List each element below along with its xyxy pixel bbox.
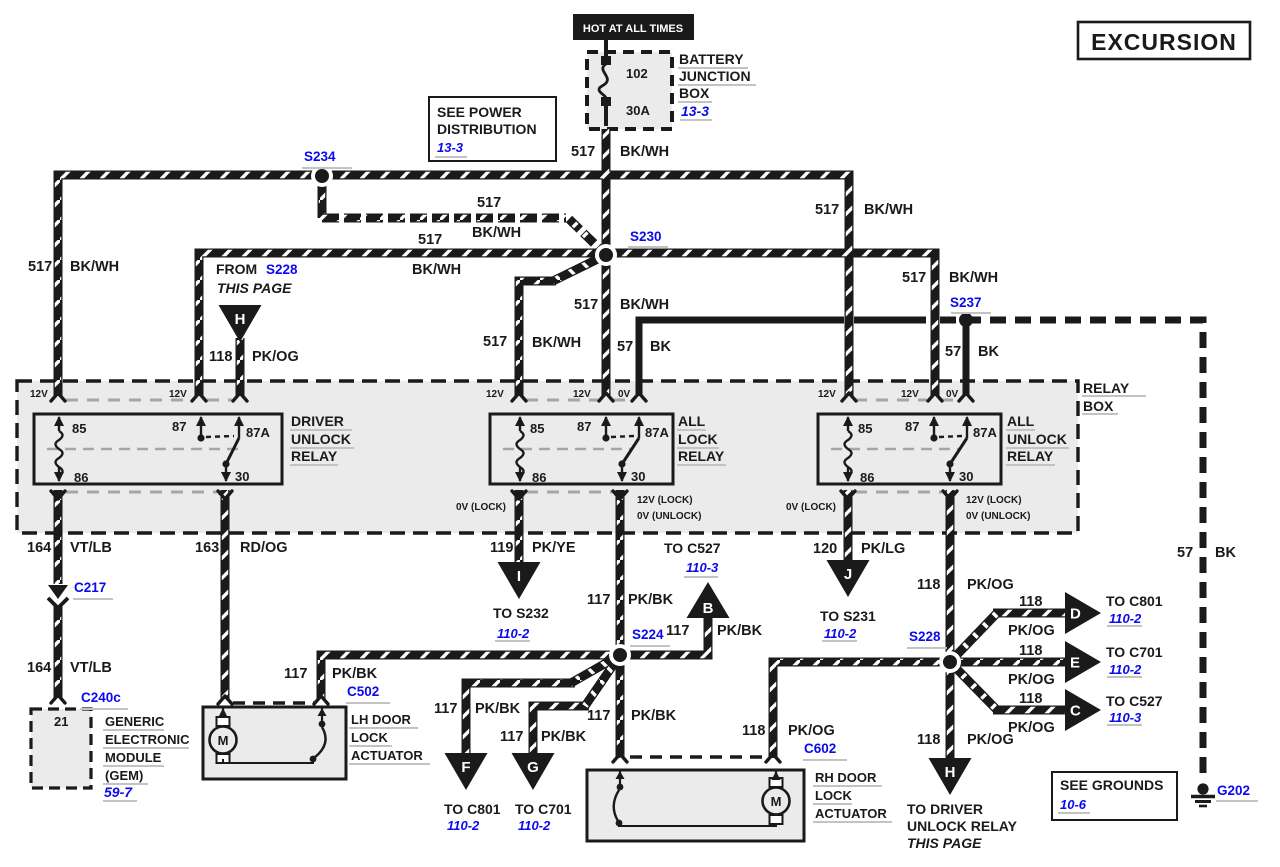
diagonal wire bundle (white slashes) xyxy=(553,255,997,706)
svg-text:I: I xyxy=(517,568,521,585)
svg-text:BOX: BOX xyxy=(1083,398,1114,414)
svg-text:117: 117 xyxy=(666,623,689,639)
svg-text:BK/WH: BK/WH xyxy=(532,335,581,351)
svg-text:S224: S224 xyxy=(632,627,664,642)
svg-text:PK/OG: PK/OG xyxy=(967,732,1014,748)
svg-text:BK/WH: BK/WH xyxy=(949,270,998,286)
svg-text:110-2: 110-2 xyxy=(824,626,857,641)
svg-text:86: 86 xyxy=(74,470,88,485)
LH actuator motor M xyxy=(217,717,230,726)
splice S230 xyxy=(595,244,617,266)
arrow C to C527 xyxy=(1065,689,1101,731)
splice S224 xyxy=(609,644,631,666)
relay U1 DRIVER UNLOCK RELAY xyxy=(34,414,282,484)
svg-text:PK/OG: PK/OG xyxy=(967,577,1014,593)
relay pin connector line xyxy=(526,399,598,402)
svg-text:S228: S228 xyxy=(909,629,941,644)
svg-text:TO C801: TO C801 xyxy=(1106,593,1163,609)
svg-text:118: 118 xyxy=(209,349,232,365)
svg-text:TO DRIVER: TO DRIVER xyxy=(907,801,983,817)
svg-text:0V (UNLOCK): 0V (UNLOCK) xyxy=(966,511,1030,522)
svg-text:0V (LOCK): 0V (LOCK) xyxy=(456,502,506,513)
svg-text:85: 85 xyxy=(858,421,872,436)
svg-text:TO C527: TO C527 xyxy=(1106,693,1163,709)
svg-text:MODULE: MODULE xyxy=(105,750,162,765)
svg-text:TO C701: TO C701 xyxy=(515,801,572,817)
svg-text:110-3: 110-3 xyxy=(1109,710,1142,725)
svg-text:VT/LB: VT/LB xyxy=(70,540,112,556)
svg-text:110-3: 110-3 xyxy=(686,560,719,575)
ground G202 xyxy=(1197,783,1208,794)
diagonal wire bundle (black base) xyxy=(553,255,997,706)
svg-text:H: H xyxy=(945,764,956,781)
relay U3 ALL UNLOCK RELAY xyxy=(818,414,1001,484)
svg-text:118: 118 xyxy=(1019,691,1042,707)
svg-text:J: J xyxy=(844,566,852,583)
svg-text:GENERIC: GENERIC xyxy=(105,714,165,729)
connector C602 dashed line xyxy=(630,755,766,758)
svg-text:G202: G202 xyxy=(1217,783,1250,798)
arrow H to driver unlock relay xyxy=(929,758,972,795)
svg-text:TO S232: TO S232 xyxy=(493,605,549,621)
LH actuator switch xyxy=(321,708,323,722)
arrow B to C527 xyxy=(687,582,730,618)
svg-text:517: 517 xyxy=(902,270,926,286)
svg-text:87A: 87A xyxy=(246,425,270,440)
svg-text:0V (LOCK): 0V (LOCK) xyxy=(786,502,836,513)
svg-text:SEE GROUNDS: SEE GROUNDS xyxy=(1060,777,1163,793)
svg-text:UNLOCK: UNLOCK xyxy=(1007,431,1067,447)
diagonal wire bundle 2 (white slashes) xyxy=(950,662,997,710)
actuator connector wire ends xyxy=(218,696,232,704)
svg-text:BK: BK xyxy=(978,344,999,360)
svg-text:110-2: 110-2 xyxy=(447,818,480,833)
RH door lock actuator box xyxy=(587,770,804,841)
arrow F to C801 xyxy=(445,753,488,790)
svg-text:117: 117 xyxy=(587,708,610,724)
svg-text:S228: S228 xyxy=(266,262,298,277)
svg-text:LOCK: LOCK xyxy=(678,431,718,447)
svg-text:BK: BK xyxy=(1215,545,1236,561)
relay bottom wire starts xyxy=(51,491,65,499)
svg-text:0V: 0V xyxy=(618,389,631,400)
svg-text:B: B xyxy=(703,600,714,617)
arrow I to S232 xyxy=(498,562,541,599)
RH actuator switch xyxy=(619,771,621,785)
svg-text:(GEM): (GEM) xyxy=(105,768,143,783)
svg-text:BK/WH: BK/WH xyxy=(620,297,669,313)
svg-text:C502: C502 xyxy=(347,684,379,699)
svg-text:30: 30 xyxy=(959,469,973,484)
svg-text:164: 164 xyxy=(27,540,51,556)
svg-text:59-7: 59-7 xyxy=(104,784,133,800)
relay pin connector line xyxy=(613,399,631,402)
fuse 102 30A xyxy=(604,40,608,56)
svg-text:87A: 87A xyxy=(645,425,669,440)
svg-text:118: 118 xyxy=(917,732,940,748)
svg-text:PK/OG: PK/OG xyxy=(1008,672,1055,688)
svg-text:117: 117 xyxy=(500,729,523,745)
svg-text:S230: S230 xyxy=(630,229,662,244)
svg-text:M: M xyxy=(218,733,229,748)
svg-text:THIS PAGE: THIS PAGE xyxy=(217,280,292,296)
LH door lock actuator box xyxy=(203,707,346,779)
svg-text:87: 87 xyxy=(905,419,919,434)
hatched wire bundle (black base) xyxy=(58,129,1065,759)
svg-text:13-3: 13-3 xyxy=(681,103,709,119)
svg-text:PK/BK: PK/BK xyxy=(631,708,677,724)
svg-text:RELAY: RELAY xyxy=(1007,448,1054,464)
svg-text:117: 117 xyxy=(587,592,610,608)
svg-text:BATTERY: BATTERY xyxy=(679,51,744,67)
svg-text:57: 57 xyxy=(617,339,633,355)
svg-text:PK/OG: PK/OG xyxy=(1008,623,1055,639)
svg-text:21: 21 xyxy=(54,714,68,729)
svg-text:110-2: 110-2 xyxy=(518,818,551,833)
RH actuator motor M xyxy=(770,778,783,787)
GEM module box xyxy=(31,709,91,788)
svg-text:517: 517 xyxy=(483,334,507,350)
svg-text:BK: BK xyxy=(650,339,671,355)
svg-text:12V: 12V xyxy=(169,389,187,400)
svg-text:10-6: 10-6 xyxy=(1060,797,1087,812)
svg-text:102: 102 xyxy=(626,66,648,81)
C240c wire end xyxy=(51,695,65,703)
svg-text:PK/OG: PK/OG xyxy=(252,349,299,365)
svg-text:164: 164 xyxy=(27,660,51,676)
svg-text:110-2: 110-2 xyxy=(1109,662,1142,677)
svg-text:PK/LG: PK/LG xyxy=(861,541,905,557)
svg-text:C602: C602 xyxy=(804,741,836,756)
svg-text:86: 86 xyxy=(860,470,874,485)
svg-text:RELAY: RELAY xyxy=(1083,380,1130,396)
svg-text:57: 57 xyxy=(945,344,961,360)
svg-text:85: 85 xyxy=(530,421,544,436)
svg-text:LOCK: LOCK xyxy=(351,730,388,745)
svg-text:BK/WH: BK/WH xyxy=(620,144,669,160)
svg-text:12V: 12V xyxy=(818,389,836,400)
svg-text:118: 118 xyxy=(917,577,940,593)
svg-text:DRIVER: DRIVER xyxy=(291,413,344,429)
label underlines xyxy=(302,167,352,169)
svg-text:BK/WH: BK/WH xyxy=(472,225,521,241)
svg-text:ALL: ALL xyxy=(1007,413,1035,429)
svg-text:517: 517 xyxy=(477,195,501,211)
arrow H from S228 xyxy=(219,305,262,342)
EXCURSION title box xyxy=(1078,22,1250,59)
svg-text:85: 85 xyxy=(72,421,86,436)
svg-text:119: 119 xyxy=(490,540,513,556)
svg-text:87: 87 xyxy=(577,419,591,434)
svg-text:118: 118 xyxy=(1019,643,1042,659)
svg-text:UNLOCK: UNLOCK xyxy=(291,431,351,447)
svg-text:517: 517 xyxy=(418,232,442,248)
svg-text:ACTUATOR: ACTUATOR xyxy=(815,806,887,821)
svg-text:BOX: BOX xyxy=(679,85,710,101)
svg-text:57: 57 xyxy=(1177,545,1193,561)
svg-text:118: 118 xyxy=(1019,594,1042,610)
svg-text:H: H xyxy=(235,311,246,328)
svg-text:12V: 12V xyxy=(30,389,48,400)
svg-text:D: D xyxy=(1070,606,1081,623)
wire 57 BK solid S237 to all-unlock relay 0V xyxy=(963,320,970,396)
svg-text:EXCURSION: EXCURSION xyxy=(1091,29,1237,55)
svg-text:BK/WH: BK/WH xyxy=(864,202,913,218)
svg-text:110-2: 110-2 xyxy=(1109,611,1142,626)
svg-text:F: F xyxy=(461,759,470,776)
svg-text:117: 117 xyxy=(434,701,457,717)
svg-text:PK/OG: PK/OG xyxy=(1008,720,1055,736)
svg-text:PK/YE: PK/YE xyxy=(532,540,576,556)
svg-text:PK/BK: PK/BK xyxy=(475,701,521,717)
svg-text:RELAY: RELAY xyxy=(678,448,725,464)
connector C217 xyxy=(48,585,68,599)
svg-text:118: 118 xyxy=(742,723,765,739)
svg-text:110-2: 110-2 xyxy=(497,626,530,641)
relay box xyxy=(17,381,1078,533)
svg-text:PK/BK: PK/BK xyxy=(628,592,674,608)
arrow J to S231 xyxy=(827,560,870,597)
svg-text:117: 117 xyxy=(284,666,307,682)
svg-text:RELAY: RELAY xyxy=(291,448,338,464)
SEE GROUNDS box xyxy=(1052,772,1177,820)
svg-text:TO C701: TO C701 xyxy=(1106,644,1163,660)
relay pin connector line xyxy=(66,399,192,402)
connector C502 dashed line xyxy=(233,701,314,704)
svg-text:12V (LOCK): 12V (LOCK) xyxy=(637,495,693,506)
RH actuator bottom wire xyxy=(619,823,776,826)
svg-text:87: 87 xyxy=(172,419,186,434)
splice S237 xyxy=(959,313,973,327)
svg-text:S237: S237 xyxy=(950,295,982,310)
svg-text:UNLOCK RELAY: UNLOCK RELAY xyxy=(907,818,1018,834)
svg-text:PK/BK: PK/BK xyxy=(717,623,763,639)
svg-text:BK/WH: BK/WH xyxy=(412,262,461,278)
svg-text:30: 30 xyxy=(235,469,249,484)
svg-text:BK/WH: BK/WH xyxy=(70,259,119,275)
svg-text:C: C xyxy=(1070,703,1081,720)
arrow D to C801 xyxy=(1065,592,1101,634)
svg-text:12V (LOCK): 12V (LOCK) xyxy=(966,495,1022,506)
svg-text:ACTUATOR: ACTUATOR xyxy=(351,748,423,763)
LH actuator bottom wire xyxy=(223,759,313,763)
svg-text:FROM: FROM xyxy=(216,261,257,277)
svg-text:30: 30 xyxy=(631,469,645,484)
relay pin connector line xyxy=(941,399,958,402)
svg-text:C240c: C240c xyxy=(81,690,121,705)
svg-text:LH DOOR: LH DOOR xyxy=(351,712,412,727)
svg-text:JUNCTION: JUNCTION xyxy=(679,68,751,84)
hatched wire bundle (white slashes) xyxy=(58,129,1065,759)
svg-text:PK/OG: PK/OG xyxy=(788,723,835,739)
svg-text:RH DOOR: RH DOOR xyxy=(815,770,877,785)
diagonal wire bundle 2 (black base) xyxy=(950,662,997,710)
svg-text:DISTRIBUTION: DISTRIBUTION xyxy=(437,121,537,137)
svg-text:THIS PAGE: THIS PAGE xyxy=(907,835,982,851)
wire 57 BK solid from all-lock relay 0V xyxy=(639,320,844,396)
svg-text:G: G xyxy=(527,759,539,776)
svg-text:SEE POWER: SEE POWER xyxy=(437,104,522,120)
svg-text:517: 517 xyxy=(574,297,598,313)
svg-text:0V (UNLOCK): 0V (UNLOCK) xyxy=(637,511,701,522)
relay U2 ALL LOCK RELAY xyxy=(490,414,673,484)
svg-text:517: 517 xyxy=(571,144,595,160)
svg-text:12V: 12V xyxy=(486,389,504,400)
svg-text:87A: 87A xyxy=(973,425,997,440)
relay top pin ends xyxy=(51,393,65,401)
relay pin connector line xyxy=(207,399,232,402)
svg-text:ELECTRONIC: ELECTRONIC xyxy=(105,732,190,747)
relay pin connector line xyxy=(855,399,927,402)
splice S234 xyxy=(311,165,333,187)
relay pin connector line xyxy=(66,491,217,494)
svg-text:12V: 12V xyxy=(901,389,919,400)
svg-text:120: 120 xyxy=(813,541,837,557)
svg-text:TO C527: TO C527 xyxy=(664,540,721,556)
battery junction box 102 xyxy=(587,52,672,129)
arrow E to C701 xyxy=(1065,641,1101,683)
svg-text:PK/BK: PK/BK xyxy=(541,729,587,745)
svg-text:C217: C217 xyxy=(74,580,106,595)
svg-text:E: E xyxy=(1070,655,1080,672)
HOT AT ALL TIMES banner xyxy=(573,14,694,40)
arrow G to C701 xyxy=(512,753,555,790)
svg-text:12V: 12V xyxy=(573,389,591,400)
svg-text:RD/OG: RD/OG xyxy=(240,540,288,556)
svg-text:TO S231: TO S231 xyxy=(820,608,876,624)
svg-text:13-3: 13-3 xyxy=(437,140,464,155)
wire 517 BK/WH dashed run S234 to S230 xyxy=(322,214,566,223)
SEE POWER DISTRIBUTION box xyxy=(429,97,556,161)
svg-text:HOT AT ALL TIMES: HOT AT ALL TIMES xyxy=(583,23,683,35)
splice S228 xyxy=(939,651,961,673)
svg-text:0V: 0V xyxy=(946,389,959,400)
svg-text:TO C801: TO C801 xyxy=(444,801,501,817)
svg-text:S234: S234 xyxy=(304,149,336,164)
svg-text:163: 163 xyxy=(195,540,219,556)
svg-text:LOCK: LOCK xyxy=(815,788,852,803)
wire 57 BK dashed to S237 and right edge down to G202 xyxy=(940,320,1203,779)
relay pin connector line xyxy=(855,491,942,494)
svg-text:VT/LB: VT/LB xyxy=(70,660,112,676)
svg-text:M: M xyxy=(771,794,782,809)
svg-text:30A: 30A xyxy=(626,103,650,118)
svg-text:517: 517 xyxy=(28,259,52,275)
svg-text:517: 517 xyxy=(815,202,839,218)
svg-text:86: 86 xyxy=(532,470,546,485)
wire diagonal into S230 from dashed run xyxy=(569,219,606,255)
relay pin connector line xyxy=(526,491,612,494)
svg-text:PK/BK: PK/BK xyxy=(332,666,378,682)
svg-text:ALL: ALL xyxy=(678,413,706,429)
